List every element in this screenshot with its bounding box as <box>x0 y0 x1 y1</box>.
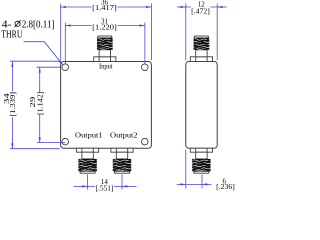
dim 6 line <box>177 183 186 185</box>
dim 14 arrows (outside) <box>82 185 87 187</box>
svg-text:[1.417]: [1.417] <box>92 4 117 12</box>
dim 29 arrows <box>39 67 41 72</box>
dim 6 extension lines <box>185 150 187 189</box>
dim 14 extension lines <box>87 174 89 189</box>
body outline <box>61 62 152 149</box>
svg-text:Output2: Output2 <box>110 132 138 140</box>
dim 6 arrows (outside) <box>181 183 186 185</box>
side body outline <box>186 62 217 149</box>
svg-text:[1.220]: [1.220] <box>92 24 117 32</box>
svg-text:[.551]: [.551] <box>96 185 114 193</box>
hole TL <box>62 64 69 71</box>
side top connector (cx=201.4) <box>190 36 212 62</box>
svg-text:Output1: Output1 <box>75 132 103 140</box>
arrowheads <box>11 6 222 188</box>
output2 connector (bottom, cx=122) <box>111 148 133 173</box>
svg-text:2.8[0.11]: 2.8[0.11] <box>22 20 55 31</box>
dim 36 line <box>61 6 152 8</box>
dim 34 line <box>11 62 13 149</box>
hole BR <box>142 138 149 145</box>
dim 31 arrows <box>65 24 70 26</box>
svg-text:[1.339]: [1.339] <box>9 92 17 117</box>
dim 34 extension lines <box>10 60 60 62</box>
output1 connector (bottom, cx=87.6) <box>77 148 99 173</box>
input connector J1 (top, cx=104.8) <box>94 36 116 62</box>
leader arrowhead <box>59 60 63 65</box>
svg-text:[.236]: [.236] <box>216 183 235 191</box>
white text backgrounds that break dim lines <box>10 5 210 192</box>
dim 34 arrows <box>11 62 13 67</box>
svg-text:[1.142]: [1.142] <box>36 92 44 116</box>
dim 12 arrows (outside) <box>181 6 186 8</box>
side bottom connector (cx=201.4) <box>190 148 212 173</box>
leader line to hole <box>24 42 63 65</box>
svg-text:THRU: THRU <box>1 29 23 40</box>
hole BL <box>62 138 69 145</box>
dim 12 line <box>177 6 186 8</box>
hole TR <box>142 64 149 71</box>
dim 31 line <box>65 25 145 27</box>
dim 36 arrows <box>61 6 66 8</box>
dim 31 extension lines <box>64 23 66 65</box>
dim 29 extension lines <box>37 66 61 68</box>
dim 36 extension lines <box>60 4 62 61</box>
dim 29 line <box>39 67 41 142</box>
dim 12 extension lines <box>185 4 187 61</box>
dim 14 line <box>74 185 88 187</box>
svg-text:[.472]: [.472] <box>191 8 210 16</box>
svg-text:Input: Input <box>99 62 113 71</box>
